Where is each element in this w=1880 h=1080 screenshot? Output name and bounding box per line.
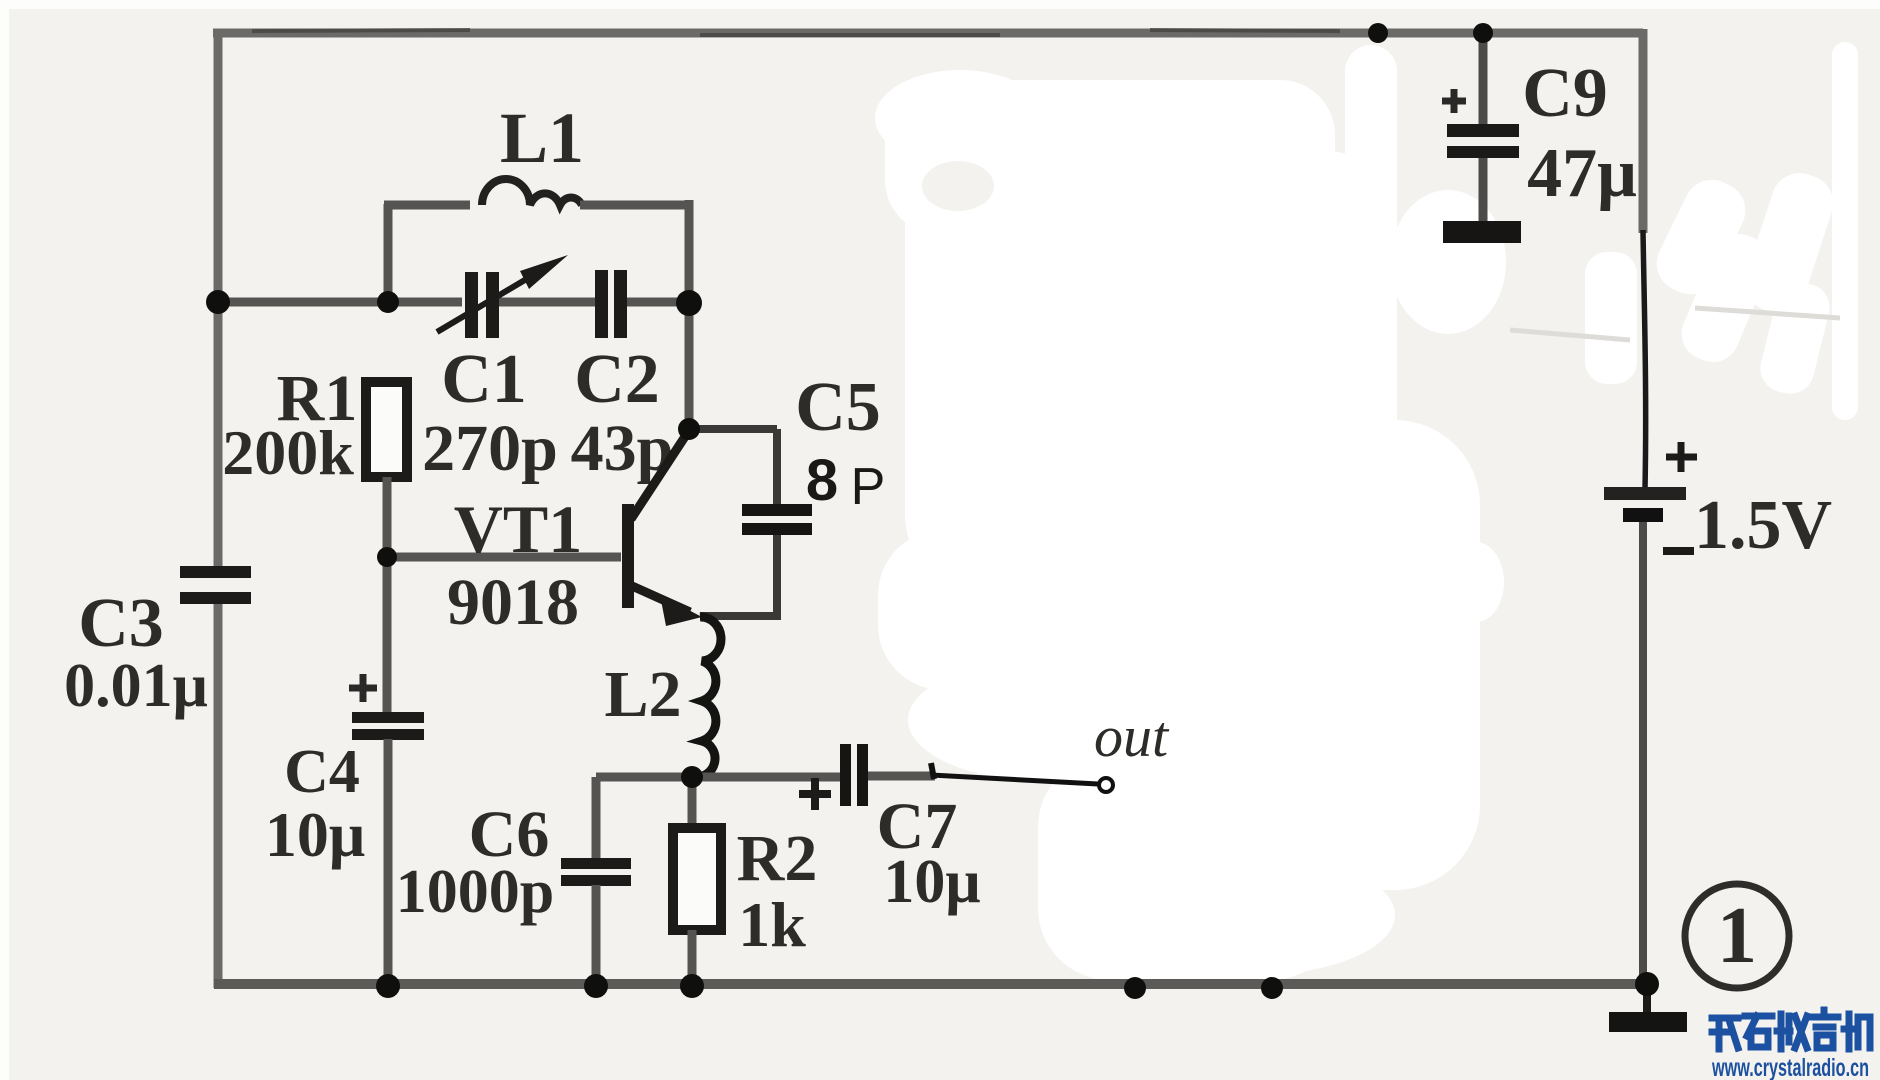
battery BT1 long plate — [1604, 487, 1686, 500]
capacitor C9 plus — [1442, 89, 1466, 113]
svg-text:1k: 1k — [738, 889, 806, 960]
wire: tank box left — [384, 204, 393, 302]
svg-text:8: 8 — [806, 448, 838, 513]
svg-text:www.crystalradio.cn: www.crystalradio.cn — [1711, 1054, 1869, 1080]
capacitor C5 plates — [742, 504, 812, 535]
wire: C5 bottom loop — [700, 535, 777, 616]
capacitor C4 plus — [349, 674, 377, 702]
ground — [1643, 984, 1651, 1014]
battery BT1 minus — [1663, 547, 1694, 555]
svg-text:47μ: 47μ — [1527, 135, 1637, 212]
svg-text:9018: 9018 — [447, 566, 579, 639]
wire: left rail upper — [214, 29, 223, 566]
svg-text:10μ: 10μ — [265, 799, 365, 870]
wire: hand-drawn out lead — [931, 763, 934, 779]
battery BT1 short plate — [1623, 508, 1663, 522]
svg-text:1: 1 — [1717, 892, 1757, 980]
svg-text:C9: C9 — [1522, 55, 1608, 132]
out terminal — [1099, 778, 1113, 792]
capacitor C4 plates — [352, 712, 424, 740]
wire: C6 bottom to bottom rail — [592, 885, 601, 988]
wire: right rail upper — [1639, 29, 1648, 233]
faint half-erased streaks — [1510, 308, 1840, 340]
transistor VT1 collector — [631, 432, 688, 519]
capacitor C7 plates — [840, 744, 868, 806]
wire: C5 down — [773, 429, 781, 506]
capacitor C7 plus — [799, 778, 831, 810]
svg-text:P: P — [851, 458, 886, 516]
wire: tank box right lower to collector node — [685, 302, 694, 430]
capacitor C1 variable plates — [465, 272, 499, 338]
wire: C7 to out stub — [868, 772, 935, 781]
resistor R2 — [673, 828, 721, 930]
svg-text:10μ: 10μ — [883, 848, 980, 916]
wire: tank box top left segment — [384, 201, 470, 210]
wire: right rail lower — [1639, 520, 1647, 988]
wire: bottom rail — [214, 979, 1651, 989]
wire: C9 lower stem — [1479, 158, 1488, 224]
wire: C6 branch down — [592, 777, 601, 860]
capacitor C2 plates — [595, 270, 627, 338]
svg-text:C4: C4 — [284, 738, 360, 806]
capacitor C6 plates — [561, 858, 631, 886]
svg-text:200k: 200k — [222, 417, 354, 488]
wire: R2 bottom to bottom rail — [688, 930, 697, 988]
wire: C4 bottom to bottom rail — [384, 739, 393, 988]
svg-text:C3: C3 — [78, 585, 164, 662]
wire: emitter rail y777 — [596, 773, 842, 782]
wire: left rail lower — [214, 604, 223, 988]
wire: base node to C4 — [383, 557, 392, 713]
svg-text:C5: C5 — [795, 369, 881, 446]
capacitor C9 plates — [1447, 124, 1519, 158]
wire: tank box right — [685, 200, 694, 302]
wire: tank box top right segment — [580, 204, 693, 206]
inductor L2 — [694, 617, 721, 777]
erasure white blobs — [875, 42, 1858, 980]
node: junction dots — [206, 23, 1659, 999]
svg-text:L1: L1 — [500, 98, 584, 178]
svg-text:VT1: VT1 — [454, 491, 582, 567]
wire: R1 bottom to base node — [383, 477, 392, 560]
battery BT1 plus — [1666, 442, 1697, 472]
wire: mid rail y302 segments — [218, 298, 689, 307]
capacitor C9 bottom bar — [1443, 221, 1521, 243]
capacitor C1 arrow — [437, 271, 540, 332]
wire: collector node to C5 — [689, 425, 777, 433]
wire: base wire — [387, 553, 621, 562]
svg-text:1000p: 1000p — [396, 858, 554, 926]
wire: right rail hand-drawn middle — [1643, 230, 1646, 489]
svg-text:0.01μ: 0.01μ — [64, 652, 208, 720]
svg-text:270p: 270p — [422, 412, 558, 485]
wire: R2 branch down — [688, 777, 697, 828]
resistor R1 — [366, 382, 407, 477]
inductor L1 — [482, 179, 582, 205]
capacitor C3 plates — [180, 566, 251, 604]
svg-text:R2: R2 — [737, 822, 818, 895]
svg-text:out: out — [1094, 704, 1170, 769]
svg-text:C1: C1 — [441, 341, 527, 418]
wire: top rail — [213, 29, 1643, 38]
watermark CJK — [1712, 1010, 1870, 1049]
svg-text:L2: L2 — [604, 658, 681, 731]
transistor VT1 emitter — [632, 586, 690, 612]
wire: C9 stem — [1479, 33, 1488, 126]
svg-text:C2: C2 — [574, 341, 660, 418]
svg-text:1.5V: 1.5V — [1694, 487, 1832, 564]
transistor VT1 base bar — [622, 504, 634, 608]
schematic number badge — [1685, 884, 1789, 988]
